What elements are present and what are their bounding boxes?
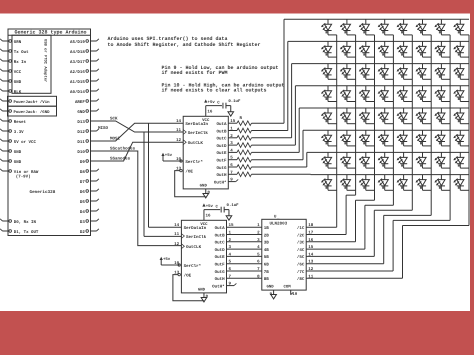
svg-text:D12: D12	[77, 130, 85, 135]
svg-text:OutG: OutG	[215, 270, 226, 275]
LED D33 row 5 col 1	[321, 108, 337, 124]
svg-text:A2/D16: A2/D16	[70, 70, 85, 75]
LED D14 row 2 col 6	[416, 41, 432, 57]
Arduino left pin BLK y=91	[0, 89, 22, 95]
svg-text:OutA: OutA	[215, 226, 226, 231]
svg-text:GND: GND	[14, 160, 22, 165]
svg-text:2B: 2B	[264, 233, 270, 238]
Arduino right pin A1/D15	[70, 79, 99, 85]
svg-text:12: 12	[176, 138, 182, 143]
svg-text:OutC: OutC	[216, 137, 227, 142]
svg-text:8B: 8B	[264, 277, 270, 282]
LED D2 row 1 col 2	[340, 19, 356, 35]
SR-anodes pin 10 SerClr*	[176, 157, 204, 165]
svg-text:14: 14	[176, 119, 182, 124]
LED D3 row 1 col 3	[359, 19, 375, 35]
wire cathode column 2 from ULN /2C	[306, 35, 355, 235]
svg-text:A4/D18: A4/D18	[70, 50, 85, 55]
LED D47 row 6 col 7	[434, 130, 450, 146]
svg-text:A1/D15: A1/D15	[70, 80, 85, 85]
LED D11 row 2 col 3	[359, 41, 375, 57]
svg-text:+5v: +5v	[206, 204, 214, 209]
Arduino right pin D9	[80, 160, 97, 165]
wire SR-anodes /OE to GND	[175, 169, 206, 196]
svg-text:_: _	[276, 217, 280, 221]
svg-text:SCK: SCK	[110, 117, 118, 122]
Arduino right pin D10	[77, 150, 96, 155]
svg-text:MISO: MISO	[98, 126, 109, 131]
LED D5 row 1 col 5	[397, 19, 413, 35]
LED D56 row 7 col 8	[453, 152, 469, 168]
SR-anodes pin 11 SerInClk	[176, 128, 208, 136]
LED D12 row 2 col 4	[378, 41, 394, 57]
SR-cathodes pin 6 OutG	[215, 267, 232, 275]
svg-text:14: 14	[174, 223, 180, 228]
ULN pin /4C output 15	[297, 245, 314, 253]
svg-text:Generic 328 type Arduino: Generic 328 type Arduino	[15, 30, 87, 36]
svg-text:D4: D4	[80, 210, 85, 215]
LED D55 row 7 col 7	[434, 152, 450, 168]
wire SSanodes D9 to anode register latch	[97, 142, 184, 161]
resistor R7	[228, 165, 251, 170]
ground SR-anodes pin 8	[203, 189, 210, 198]
LED D30 row 4 col 6	[416, 86, 432, 102]
LED D46 row 6 col 6	[416, 130, 432, 146]
wire anode row 2 riser	[252, 41, 470, 130]
svg-text:D8: D8	[80, 170, 85, 175]
ULN pin /6C output 13	[297, 260, 314, 268]
svg-text:+5v: +5v	[163, 257, 171, 262]
Arduino left pin GND y=161	[0, 159, 22, 165]
svg-text:D3: D3	[80, 220, 85, 225]
svg-text:BLK: BLK	[14, 90, 22, 95]
svg-text:11: 11	[176, 128, 182, 133]
Arduino left pin GRN y=41	[0, 39, 22, 45]
Arduino left pin GND y=81	[0, 79, 22, 85]
LED D42 row 6 col 2	[340, 130, 356, 146]
svg-text:+5v: +5v	[165, 153, 173, 158]
darlington array U2 ULN2803	[262, 215, 306, 291]
svg-text:16: 16	[207, 110, 213, 115]
resistor R3	[228, 136, 251, 141]
svg-text:Rx In: Rx In	[14, 60, 27, 65]
svg-text:OutA: OutA	[216, 122, 227, 127]
LED D60 row 8 col 4	[378, 175, 394, 191]
LED D40 row 5 col 8	[453, 108, 469, 124]
svg-text:(7-9V): (7-9V)	[16, 175, 31, 180]
svg-text:D9: D9	[80, 160, 85, 165]
resistor R4	[228, 143, 251, 148]
LED D15 row 2 col 7	[434, 41, 450, 57]
svg-text:Generic328: Generic328	[30, 189, 56, 195]
svg-text:to Anode Shift Register, and C: to Anode Shift Register, and Cathode Shi…	[108, 42, 261, 48]
SR-anodes pin 3 OutD	[216, 141, 233, 149]
svg-text:0.1uF: 0.1uF	[228, 99, 241, 104]
capacitor C 0.1uF on SR-anodes	[206, 99, 241, 116]
svg-text:GND: GND	[198, 287, 206, 292]
wire OutA SR-cathodes to ULN pin 1	[227, 223, 270, 231]
svg-text:12: 12	[174, 242, 180, 247]
capacitor C 0.1uF on SR-cathodes	[204, 203, 239, 220]
Arduino right pin D8	[80, 169, 99, 175]
svg-text:11: 11	[174, 232, 180, 237]
LED D27 row 4 col 3	[359, 86, 375, 102]
SR-cathodes pin 11 SerInClk	[174, 232, 206, 240]
LED D29 row 4 col 5	[397, 86, 413, 102]
svg-text:D2: D2	[80, 230, 85, 235]
svg-text:USB or FTDI Adapter: USB or FTDI Adapter	[42, 39, 47, 82]
svg-text:OutG: OutG	[216, 166, 227, 171]
wire OutE SR-cathodes to ULN pin 5	[227, 252, 270, 260]
svg-text:D10: D10	[77, 150, 85, 155]
LED D16 row 2 col 8	[453, 41, 469, 57]
PowerJack- /GND pin box	[8, 106, 57, 116]
wire anode row 7 riser	[252, 152, 470, 167]
LED D57 row 8 col 1	[321, 175, 337, 191]
SR-anodes pin 2 OutC	[216, 134, 233, 142]
wire MOSI D11 to shift registers	[97, 123, 184, 227]
LED D41 row 6 col 1	[321, 130, 337, 146]
svg-text:OutD: OutD	[216, 144, 227, 149]
svg-text:SerDataIn: SerDataIn	[184, 226, 207, 231]
svg-text:D11: D11	[77, 140, 85, 145]
LED D45 row 6 col 5	[397, 130, 413, 146]
wire cathode column 3 from ULN /3C	[306, 35, 374, 242]
LED D51 row 7 col 3	[359, 152, 375, 168]
svg-text:D7: D7	[80, 180, 85, 185]
SR-anodes pin 15 OutA	[216, 119, 235, 127]
SR-anodes pin 6 OutG	[216, 163, 233, 171]
svg-text:PowerJack+ /Vin: PowerJack+ /Vin	[14, 100, 51, 105]
wire SScathodes D10 to cathode register latch	[97, 145, 182, 245]
Arduino left pin PowerJack y=101	[0, 99, 11, 102]
svg-text:A0/D14: A0/D14	[70, 90, 85, 95]
SR-cathodes pin 4 OutE	[215, 252, 232, 260]
svg-text:3B: 3B	[264, 241, 270, 246]
Arduino right pin A2/D16	[70, 69, 99, 75]
wire SR-cathodes /OE to GND	[173, 273, 204, 300]
Arduino right pin D6	[80, 189, 99, 195]
SR-anodes pin 13 /OE	[176, 167, 193, 175]
LED D50 row 7 col 2	[340, 152, 356, 168]
svg-text:GND: GND	[14, 150, 22, 155]
wire cathode column 8 from ULN /8C	[306, 35, 469, 278]
Arduino left pin Reset y=121	[0, 119, 27, 125]
LED D54 row 7 col 6	[416, 152, 432, 168]
svg-text:GND: GND	[200, 183, 208, 188]
Arduino left pin 5V or VCC y=141	[0, 139, 36, 145]
Arduino left pin GND y=151	[0, 149, 22, 155]
svg-text:OutE: OutE	[215, 255, 226, 260]
svg-text:0.1uF: 0.1uF	[227, 203, 240, 208]
SR-anodes pin 1 OutB	[216, 127, 233, 135]
ULN pin /7C output 12	[297, 267, 314, 275]
svg-text:OutH: OutH	[216, 173, 227, 178]
SR-cathodes pin 15 OutA	[215, 223, 234, 231]
Arduino right pin GND	[77, 109, 98, 115]
LED D39 row 5 col 7	[434, 108, 450, 124]
svg-text:GRN: GRN	[14, 40, 22, 45]
LED D17 row 3 col 1	[321, 64, 337, 80]
svg-text:OutF: OutF	[215, 263, 226, 268]
ULN pin /5C output 14	[297, 252, 314, 260]
LED D7 row 1 col 7	[434, 19, 450, 35]
SR-cathodes pin 13 /OE	[174, 271, 191, 279]
SR-anodes pin 5 OutF	[216, 156, 233, 164]
SR-anodes pin 7 OutH	[216, 170, 233, 178]
Arduino right pin D5	[80, 199, 99, 205]
svg-text:D0, Rx IN: D0, Rx IN	[14, 220, 37, 225]
wire OutC SR-cathodes to ULN pin 3	[227, 238, 270, 246]
LED D9 row 2 col 1	[321, 41, 337, 57]
svg-text:A3/D17: A3/D17	[70, 60, 85, 65]
LED D23 row 3 col 7	[434, 64, 450, 80]
Arduino left pin PowerJack y=111	[0, 109, 11, 112]
LED D64 row 8 col 8	[453, 175, 469, 191]
svg-text:MOSI: MOSI	[110, 136, 121, 141]
note: SPI usage	[108, 36, 261, 48]
resistor R8	[228, 172, 251, 177]
LED D48 row 6 col 8	[453, 130, 469, 146]
svg-text:ULN2803: ULN2803	[270, 222, 288, 227]
LED D52 row 7 col 4	[378, 152, 394, 168]
LED D26 row 4 col 2	[340, 86, 356, 102]
svg-text:3.3V: 3.3V	[14, 130, 24, 135]
SR-anodes pin 12 OutCLK	[176, 138, 203, 146]
Arduino left pin D0, Rx IN y=221	[0, 219, 36, 225]
LED D34 row 5 col 2	[340, 108, 356, 124]
svg-text:6B: 6B	[264, 263, 270, 268]
Arduino right pin D11	[77, 140, 96, 145]
ground SR-cathodes pin 8	[201, 293, 208, 302]
LED D43 row 6 col 3	[359, 130, 375, 146]
svg-text:GND: GND	[77, 110, 85, 115]
resistor R5	[228, 150, 251, 155]
SR-anodes pin 14 SerDataIn	[176, 119, 209, 127]
svg-text:Reset: Reset	[14, 120, 27, 125]
wire anode row 4 riser	[252, 86, 470, 145]
Generic328 label	[30, 189, 56, 195]
Arduino right pin D3	[80, 219, 99, 225]
svg-text:OutD: OutD	[215, 248, 226, 253]
Arduino left pin Tx Out y=51	[0, 49, 29, 55]
svg-text:OutB: OutB	[215, 233, 226, 238]
Arduino right pin D4	[80, 209, 99, 215]
SR-cathodes pin 7 OutH	[215, 274, 232, 282]
wire OutD SR-cathodes to ULN pin 4	[227, 245, 270, 253]
wire OutH SR-cathodes to ULN pin 8	[227, 274, 270, 282]
svg-text:OutF: OutF	[216, 159, 227, 164]
wire anode row 1 riser	[252, 19, 470, 123]
svg-text:PowerJack- /GND: PowerJack- /GND	[14, 110, 51, 115]
svg-text:OutCLK: OutCLK	[186, 245, 202, 250]
ULN pin /3C output 16	[297, 238, 314, 246]
svg-text:if need exists for PWM: if need exists for PWM	[162, 70, 228, 76]
Arduino left pin VCC y=71	[0, 69, 22, 75]
USB/FTDI adapter header	[12, 35, 51, 93]
wire cathode column 1 from ULN /1C	[306, 35, 337, 227]
wire anode row 8 riser	[252, 173, 470, 175]
svg-text:4B: 4B	[264, 248, 270, 253]
svg-text:OutE: OutE	[216, 151, 227, 156]
svg-text:7B: 7B	[264, 270, 270, 275]
wire anode row 5 riser	[252, 108, 470, 152]
+5V to SR-cathodes SerClr* pin 10	[160, 257, 181, 266]
Arduino right pin D7	[80, 179, 99, 185]
svg-text:GND: GND	[267, 285, 275, 290]
SR-cathodes pin 12 OutCLK	[174, 242, 201, 250]
Arduino left pin Vin or RAW y=171	[0, 169, 39, 180]
resistor R2	[228, 128, 251, 133]
wire anode row 6 riser	[252, 130, 470, 160]
ULN pin /1C output 18	[297, 223, 314, 231]
wire cathode column 7 from ULN /7C	[306, 35, 450, 271]
svg-text:16: 16	[206, 214, 212, 219]
svg-text:D1, Tx OUT: D1, Tx OUT	[14, 230, 39, 235]
svg-text:Tx Out: Tx Out	[14, 50, 29, 55]
LED D13 row 2 col 5	[397, 41, 413, 57]
LED D32 row 4 col 8	[453, 86, 469, 102]
ULN pin /2C output 17	[297, 231, 314, 239]
svg-text:OutH: OutH	[215, 277, 226, 282]
+5V / VCC pin 16 of SR-cathodes	[202, 203, 213, 220]
LED D20 row 3 col 4	[378, 64, 394, 80]
shift register SR-anodes 74HC595	[183, 116, 228, 189]
LED D61 row 8 col 5	[397, 175, 413, 191]
LED D1 row 1 col 1	[321, 19, 337, 35]
svg-text:D5: D5	[80, 200, 85, 205]
LED D10 row 2 col 2	[340, 41, 356, 57]
LED D53 row 7 col 5	[397, 152, 413, 168]
svg-text:5V or VCC: 5V or VCC	[14, 140, 37, 145]
LED D31 row 4 col 7	[434, 86, 450, 102]
note: pin 10	[162, 82, 285, 93]
svg-text:Arduino uses SPI.transfer() to: Arduino uses SPI.transfer() to send data	[108, 36, 228, 42]
ground ULN pin 9	[269, 290, 276, 299]
svg-text:OutC: OutC	[215, 241, 226, 246]
LED D35 row 5 col 3	[359, 108, 375, 124]
SR-cathodes pin 10 SerClr*	[174, 261, 202, 269]
resistor R6	[228, 157, 251, 162]
SR-cathodes pin 9 OutH*	[212, 282, 236, 290]
wire OutF SR-cathodes to ULN pin 6	[227, 260, 270, 268]
SR-cathodes pin 5 OutF	[215, 260, 232, 268]
SR-cathodes pin 14 SerDataIn	[174, 223, 207, 231]
shift register SR-cathodes 74HC595	[181, 220, 226, 293]
LED D49 row 7 col 1	[321, 152, 337, 168]
ULN pin /8C output 11	[297, 274, 314, 282]
+5V / VCC pin 16 of SR-anodes	[204, 99, 215, 116]
ULN COM pin 10	[291, 290, 298, 297]
svg-text:GND: GND	[14, 80, 22, 85]
LED D24 row 3 col 8	[453, 64, 469, 80]
svg-text:COM: COM	[284, 285, 292, 290]
LED D37 row 5 col 5	[397, 108, 413, 124]
svg-text:AREF: AREF	[75, 100, 85, 105]
resistor R1	[228, 116, 251, 125]
LED D22 row 3 col 6	[416, 64, 432, 80]
LED D21 row 3 col 5	[397, 64, 413, 80]
Arduino right pin A3/D17	[70, 59, 99, 65]
Arduino right pin D12	[77, 129, 98, 135]
Arduino right pin D13	[77, 120, 96, 125]
note: pin 9	[162, 65, 279, 76]
svg-text:Vin or RAW: Vin or RAW	[14, 170, 39, 175]
LED D58 row 8 col 2	[340, 175, 356, 191]
LED D44 row 6 col 4	[378, 130, 394, 146]
wire cathode column 6 from ULN /6C	[306, 35, 431, 264]
Arduino right pin A5/D19	[70, 39, 99, 45]
LED D63 row 8 col 7	[434, 175, 450, 191]
LED D8 row 1 col 8	[453, 19, 469, 35]
LED D62 row 8 col 6	[416, 175, 432, 191]
svg-text:5B: 5B	[264, 255, 270, 260]
svg-text:D13: D13	[77, 120, 85, 125]
svg-text:D6: D6	[80, 190, 85, 195]
LED D59 row 8 col 3	[359, 175, 375, 191]
Arduino right pin D2	[80, 229, 99, 235]
Arduino left pin 3.3V y=131	[0, 129, 24, 135]
Arduino right pin AREF	[75, 99, 99, 105]
Arduino right pin A4/D18	[70, 49, 99, 55]
svg-text:A5/D19: A5/D19	[70, 40, 85, 45]
svg-text:OutCLK: OutCLK	[188, 141, 204, 146]
wire cathode column 4 from ULN /4C	[306, 35, 393, 249]
wire cathode column 5 from ULN /5C	[306, 35, 412, 257]
svg-text:if need exists to clear all ou: if need exists to clear all outputs	[162, 87, 267, 93]
LED D4 row 1 col 4	[378, 19, 394, 35]
Arduino left pin D1, Tx OUT y=231	[0, 229, 39, 235]
wire OutG SR-cathodes to ULN pin 7	[227, 267, 270, 275]
wire OutB SR-cathodes to ULN pin 2	[227, 231, 270, 239]
LED D18 row 3 col 2	[340, 64, 356, 80]
Arduino right pin A0/D14	[70, 89, 99, 95]
LED D25 row 4 col 1	[321, 86, 337, 102]
SR-cathodes pin 1 OutB	[215, 231, 232, 239]
svg-text:SerDataIn: SerDataIn	[185, 122, 208, 127]
SR-anodes pin 4 OutE	[216, 148, 233, 156]
svg-text:+5v: +5v	[208, 100, 216, 105]
SR-anodes pin 9 OutH*	[214, 178, 238, 186]
Arduino left pin Rx In y=61	[0, 59, 27, 65]
svg-text:VCC: VCC	[14, 70, 22, 75]
LED D38 row 5 col 6	[416, 108, 432, 124]
wire anode row 3 riser	[252, 64, 470, 138]
SR-cathodes pin 3 OutD	[215, 245, 232, 253]
SR-cathodes pin 2 OutC	[215, 238, 232, 246]
label MISO (D12 unused)	[98, 126, 109, 131]
Arduino U1 Generic 328	[8, 29, 91, 236]
PowerJack+ /Vin pin box	[8, 96, 57, 106]
LED D36 row 5 col 4	[378, 108, 394, 124]
svg-text:1B: 1B	[264, 226, 270, 231]
wire SCK D13 to shift registers	[97, 117, 184, 237]
LED D6 row 1 col 6	[416, 19, 432, 35]
svg-text:OutB: OutB	[216, 129, 227, 134]
LED D28 row 4 col 4	[378, 86, 394, 102]
+5V to SR-anodes SerClr* pin 10	[161, 153, 182, 162]
LED D19 row 3 col 3	[359, 64, 375, 80]
